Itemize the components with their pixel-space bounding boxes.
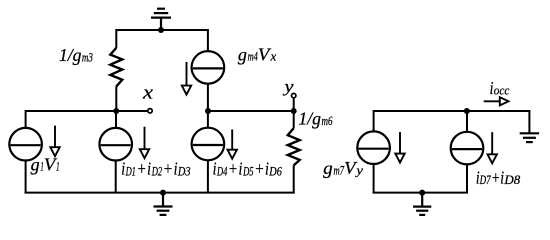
wire bottom rail left section [25,192,295,194]
resistor 1/gm3 top lead wire [115,29,117,48]
svg-text:g: g [323,158,333,178]
svg-text:+: + [491,168,500,188]
junction resistor 1/gm3 / node x rail [113,108,119,114]
junction bottom rail / ground right [419,190,425,196]
svg-text:D6: D6 [268,164,282,178]
arrow current direction gm4Vx [182,62,191,95]
svg-text:m6: m6 [322,114,334,128]
svg-text:D2: D2 [151,164,162,178]
svg-text:1/g: 1/g [59,45,82,65]
svg-text:D5: D5 [242,164,253,178]
ground bottom left [154,193,173,215]
wire node x rail (right, to node y branch) [208,110,294,112]
svg-text:g: g [238,44,247,64]
current source gm7Vy top lead wire [374,111,375,132]
node y terminal lead wire [293,99,295,112]
svg-text:m7: m7 [334,163,345,177]
svg-text:i: i [239,159,243,179]
current source iD1+iD2+iD3 [99,128,132,161]
wire right corner down to ground [528,110,530,133]
label g1V1 [31,155,60,175]
current source g1V1 top lead wire [26,111,27,128]
wire bottom rail right section [373,192,468,194]
current source iD1+iD2+iD3 top lead wire [115,111,117,128]
current source iD7+iD8 bottom lead wire [466,164,468,193]
current source iD7+iD8 [451,132,484,165]
svg-text:i: i [213,159,217,179]
svg-text:i: i [147,159,151,179]
current source gm7Vy bottom lead wire [373,164,375,194]
wire top rail [116,29,208,31]
current source g1V1 bottom lead wire [25,160,27,193]
current source gm4Vx top lead wire [207,29,209,51]
wire node x rail (left) [26,110,148,112]
current source iD1+iD2+iD3 bottom lead wire [115,160,117,193]
resistor 1/gm6 [288,128,300,165]
current source iD4+iD5+iD6 [192,128,225,161]
svg-text:m3: m3 [82,51,93,65]
svg-text:1/g: 1/g [298,109,321,129]
svg-text:D3: D3 [177,164,190,178]
svg-text:D7: D7 [479,173,491,187]
arrow iocc [484,97,509,105]
current source g1V1 [9,128,42,161]
arrow current direction g1V1 [50,126,59,157]
current source gm7Vy [357,131,390,164]
label iD1+iD2+iD3 [121,159,190,179]
label iocc [490,78,510,98]
label 1/gm6 [298,109,333,129]
label gm4Vx [238,44,277,64]
wire top rail right section [374,110,530,112]
ground right (output) [520,133,539,142]
arrow current direction iD1+iD2+iD3 [140,127,149,159]
svg-text:+: + [228,159,238,179]
resistor 1/gm6 top lead wire [293,111,295,128]
svg-text:1: 1 [56,160,60,174]
node y terminal [292,93,296,97]
current source iD4+iD5+iD6 top lead wire [207,111,209,128]
resistor 1/gm3 bottom lead wire [115,86,117,111]
svg-text:+: + [254,159,264,179]
label 1/gm3 [59,45,93,65]
junction bottom rail / ground left [160,190,166,196]
junction top rail / ground [158,27,164,33]
current source iD4+iD5+iD6 bottom lead wire [207,160,209,194]
svg-text:x: x [142,83,154,103]
svg-text:i: i [121,159,125,179]
arrow current direction iD4+iD5+iD6 [228,129,237,158]
arrow current direction iD7+iD8 [488,132,497,163]
svg-text:D4: D4 [216,164,227,178]
current source gm4Vx bottom lead wire [207,84,209,111]
label gm7Vy [323,158,363,178]
junction gm4 branch / x rail [205,108,211,114]
svg-text:m4: m4 [248,50,258,64]
junction iD7 branch / top rail [464,108,470,114]
ground bottom right [413,193,431,215]
label iD4+iD5+iD6 [213,159,283,179]
resistor 1/gm3 [110,48,122,87]
resistor 1/gm6 bottom lead wire [293,165,295,193]
svg-text:occ: occ [494,84,510,98]
ground top (inverted, above top rail) [151,9,171,30]
current source gm4Vx [192,51,225,84]
current source iD7+iD8 top lead wire [466,111,468,132]
junction y branch / x rail [291,108,297,114]
svg-text:y: y [354,163,363,177]
svg-text:+: + [137,159,147,179]
label iD7+iD8 [476,168,521,188]
svg-text:D1: D1 [125,164,136,178]
svg-text:y: y [282,77,294,96]
svg-text:D8: D8 [503,173,521,187]
arrow current direction gm7Vy [395,132,404,163]
node x terminal [148,109,152,113]
svg-text:+: + [163,159,173,179]
svg-text:x: x [269,50,276,64]
svg-text:g: g [31,155,40,175]
